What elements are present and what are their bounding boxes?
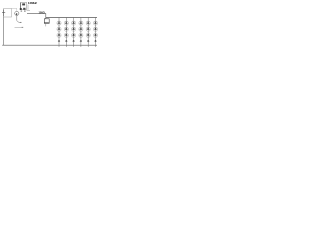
diode D19 [58, 40, 60, 42]
wire ic stub [27, 10, 31, 12]
wire bottom bus [2, 44, 97, 46]
wire resistor tail [45, 23, 47, 26]
wire string 3 column [73, 18, 75, 47]
pin 1 label [21, 10, 23, 11]
wire string 1 column [58, 18, 60, 47]
LED D8 [64, 27, 68, 31]
LED D9 [72, 27, 76, 31]
LED D11 [86, 27, 90, 31]
wire string 5 column [87, 18, 89, 47]
LED D10 [79, 27, 83, 31]
wire lamp lead [17, 16, 21, 23]
diode D20 [65, 40, 67, 42]
wire capacitor stub [27, 5, 29, 10]
resistor R2 [44, 19, 49, 24]
wire battery to lamp [12, 8, 17, 11]
diode D24 [94, 40, 96, 42]
IC U1 555 timer [20, 3, 27, 11]
wire string 2 column [65, 18, 67, 47]
LED D14 [64, 33, 68, 37]
node A [20, 22, 21, 23]
LED D4 [79, 21, 83, 25]
battery plus terminal [2, 10, 5, 17]
LED D1 [57, 21, 61, 25]
LED D16 [79, 33, 83, 37]
LED D12 [93, 27, 97, 31]
wire left rail [3, 17, 5, 45]
diode D21 [73, 40, 75, 42]
LED D3 [72, 21, 76, 25]
svg-text:100Ω: 100Ω [39, 11, 46, 15]
diode D22 [80, 40, 82, 42]
LED D6 [93, 21, 97, 25]
pin 2 label [24, 10, 26, 11]
battery B1 [4, 9, 12, 18]
diode D23 [87, 40, 89, 42]
LED D15 [72, 33, 76, 37]
wire output [27, 12, 46, 14]
capacitor C2 plate [15, 27, 24, 29]
LED D5 [86, 21, 90, 25]
LED D17 [86, 33, 90, 37]
wire feed [45, 13, 47, 18]
LED D18 [93, 33, 97, 37]
LED D7 [57, 27, 61, 31]
lamp L1 [15, 11, 19, 15]
LED D2 [64, 21, 68, 25]
wire string 4 column [80, 18, 82, 47]
svg-text:0.068uF: 0.068uF [28, 1, 38, 5]
LED D13 [57, 33, 61, 37]
wire top bus [46, 17, 97, 19]
wire string 6 column [95, 18, 97, 47]
